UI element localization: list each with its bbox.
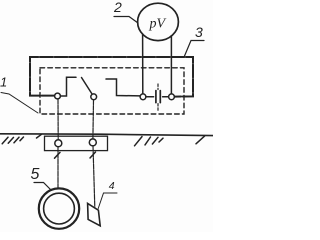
switch common terminal bbox=[91, 94, 97, 100]
cable to jet bbox=[93, 146, 95, 207]
leader 4 bbox=[98, 193, 117, 209]
ground hatch bbox=[159, 138, 163, 142]
switch fixed contact left bbox=[61, 77, 76, 96]
ground hatch bbox=[152, 137, 158, 144]
wire gauge right bbox=[170, 36, 172, 94]
gauge U-PV circle bbox=[138, 3, 179, 40]
ground line bbox=[0, 134, 213, 136]
wire panel to box right bbox=[92, 100, 95, 139]
contact bar left bbox=[155, 91, 157, 103]
panel box (dashed) bbox=[40, 68, 184, 114]
wire panel to box left bbox=[57, 99, 59, 140]
switch blade bbox=[82, 78, 92, 94]
pump outer circle bbox=[39, 188, 79, 228]
wire gauge left bbox=[142, 34, 144, 94]
svg-text:2: 2 bbox=[113, 0, 122, 15]
ground hatch left bbox=[2, 137, 8, 144]
ground hatch bbox=[37, 134, 42, 138]
switch left terminal bbox=[55, 93, 61, 99]
junction box bbox=[45, 136, 108, 150]
cable tick right bbox=[90, 152, 96, 158]
box terminal left bbox=[55, 140, 62, 147]
contact right terminal bbox=[169, 94, 175, 100]
ground hatch bbox=[145, 137, 151, 145]
leader 2 bbox=[114, 17, 138, 24]
leader 3 bbox=[185, 41, 205, 57]
svg-text:4: 4 bbox=[109, 180, 115, 192]
water jet symbol bbox=[88, 203, 101, 225]
svg-text:3: 3 bbox=[195, 24, 203, 40]
cable to pump bbox=[57, 147, 59, 189]
ground hatch bbox=[8, 137, 13, 143]
leader 5 bbox=[34, 183, 52, 191]
leader 1 bbox=[1, 93, 38, 114]
svg-text:1: 1 bbox=[0, 75, 7, 90]
wire bbox=[146, 96, 154, 98]
box terminal right bbox=[89, 139, 96, 146]
contact bar right bbox=[159, 91, 161, 103]
svg-text:5: 5 bbox=[31, 166, 40, 183]
wire bbox=[163, 96, 169, 98]
cable tick left bbox=[55, 152, 61, 158]
wire loop bbox=[30, 57, 193, 97]
ground hatch right bbox=[196, 136, 205, 144]
pump inner circle bbox=[44, 193, 75, 224]
switch fixed contact right bbox=[106, 79, 140, 96]
contact link lower (dashed) bbox=[157, 104, 159, 111]
ground hatch bbox=[20, 137, 24, 141]
ground hatch bbox=[135, 137, 143, 146]
contact link upper (dashed) bbox=[157, 84, 159, 90]
ground hatch bbox=[14, 137, 19, 143]
svg-text:pV: pV bbox=[149, 17, 167, 32]
contact left terminal bbox=[140, 94, 146, 100]
